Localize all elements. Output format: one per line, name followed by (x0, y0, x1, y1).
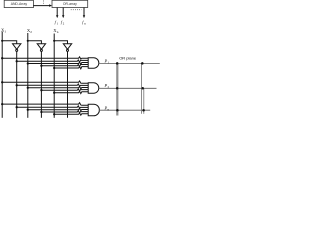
bus mark on wire (42, 0, 45, 4)
wire Pn.b from X1' (17, 106, 89, 108)
inverter G2 (37, 44, 45, 50)
OR plane column 1 (bus band) (116, 63, 118, 115)
wire P2 output (99, 87, 157, 89)
ellipsis dots between f2 and fn (71, 9, 82, 11)
input wire X2 (27, 33, 29, 118)
OR plane column 2a (141, 63, 143, 113)
wire Pn.a from X1 (2, 103, 88, 106)
wire AND-array to OR-array (33, 5, 49, 7)
node X2 tap (27, 40, 29, 42)
wire Pn.e from Xn (54, 113, 88, 115)
OR plane column 2b (143, 88, 145, 114)
wire f2 (62, 8, 64, 16)
wire P1.a from X1 (2, 57, 88, 59)
OR-array block U2 (52, 0, 88, 7)
input wire X1 (1, 32, 3, 118)
wire Pn output (99, 109, 150, 111)
node P1-col1 (116, 62, 119, 65)
node Xn tap (53, 40, 55, 42)
wire fn (83, 8, 85, 16)
wire P1.c from X2 (28, 62, 89, 64)
svg-text:AND-Array: AND-Array (11, 2, 28, 6)
arrowhead into OR-array (49, 4, 52, 7)
and gate U3 (88, 58, 99, 68)
input wire Xn (53, 34, 55, 118)
wire P2.c from X2 (28, 86, 89, 88)
node P1-col2 (141, 62, 144, 65)
node P2-col2 (141, 87, 144, 90)
node X1 tap (1, 40, 3, 42)
inverter G1 (13, 44, 21, 50)
wire X1 complement column (16, 51, 18, 117)
wire P2.a from X1 (2, 81, 88, 83)
wire f1 (56, 8, 58, 16)
wire P1.b from X1' (17, 60, 89, 62)
wire Pn.d from X2' (41, 111, 88, 113)
and gate U4 (88, 83, 99, 93)
wire X1 to inverter G1 (2, 41, 17, 44)
and gate U5 (88, 104, 99, 116)
wire P2.b from X1' (17, 84, 89, 86)
wire P2.d from X2' (41, 89, 88, 91)
node Pn-col1 (116, 109, 119, 112)
wire P1.d from X2' (41, 64, 88, 66)
svg-text:OR plane: OR plane (119, 56, 137, 61)
inverter G3 (63, 44, 71, 50)
node P2-col1 (116, 87, 119, 90)
wire X2 to inverter G2 (28, 41, 42, 44)
svg-text:OR-array: OR-array (63, 2, 77, 6)
wire P1.e from Xn (54, 67, 88, 69)
node Pn-col2 (142, 109, 145, 112)
wire Xn to inverter G3 (54, 41, 67, 44)
wire P2.e from Xn (54, 91, 88, 93)
wire X2 complement column (40, 51, 42, 117)
wire P1 output (99, 62, 160, 64)
wire Xn complement column (67, 51, 69, 117)
wire Pn.c from X2 (28, 108, 89, 110)
AND-array block U1 (4, 0, 33, 7)
